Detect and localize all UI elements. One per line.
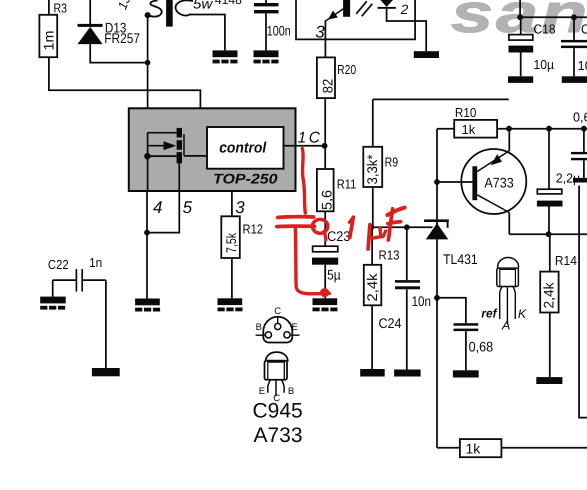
wire TL431 vertical [436, 129, 438, 448]
bar terminal (0,68) [453, 370, 479, 377]
svg-text:B: B [256, 322, 262, 333]
node C24 top junction [404, 224, 410, 230]
ground (C22) [40, 297, 65, 310]
resistor R12 [221, 191, 263, 298]
wire R9 top rail [373, 98, 509, 100]
svg-text:1n: 1n [89, 255, 102, 270]
optocoupler LED [378, 0, 427, 51]
svg-text:TOP-250: TOP-250 [213, 170, 278, 186]
ground (transformer) [213, 50, 238, 63]
svg-text:10µ: 10µ [578, 58, 587, 73]
svg-text:C: C [309, 129, 321, 146]
shunt regulator TL431 [424, 219, 478, 267]
wire emitter rail [509, 233, 587, 235]
svg-text:3: 3 [235, 198, 245, 217]
optocoupler light arrows [356, 1, 372, 16]
svg-text:R11: R11 [337, 176, 357, 191]
svg-text:ref: ref [481, 306, 498, 320]
node A733 base junction [434, 179, 440, 185]
bar terminal (R14) [536, 377, 562, 384]
resistor R14 [540, 234, 577, 377]
svg-text:E: E [259, 386, 265, 397]
capacitor C18 [508, 17, 556, 83]
ground (R12) [218, 298, 243, 311]
svg-text:2,4k: 2,4k [540, 282, 556, 309]
optocoupler phototransistor [315, 0, 350, 57]
svg-text:5,6: 5,6 [318, 190, 334, 210]
svg-text:C945: C945 [253, 400, 303, 423]
svg-text:1: 1 [298, 129, 307, 146]
svg-text:R9: R9 [385, 155, 399, 170]
node R9/R13 ref junction [368, 224, 374, 230]
svg-text:A733: A733 [484, 174, 513, 190]
svg-text:A: A [501, 318, 510, 332]
bar terminal (opto) [414, 51, 439, 58]
svg-text:3: 3 [315, 23, 325, 42]
svg-text:1m: 1m [40, 31, 56, 51]
red annotation hand-drawn 0,1µF capacitor [277, 149, 405, 298]
wire pin5 joins pin4 [147, 191, 179, 233]
wire control to pin 1 C [284, 145, 325, 147]
resistor R3 [39, 0, 200, 108]
ground (pin4) [135, 299, 160, 312]
wire ref node [371, 226, 432, 228]
svg-text:K: K [518, 307, 527, 321]
transformer secondary winding [175, 0, 241, 50]
MOSFET internal [144, 128, 207, 191]
transistor A733 [437, 129, 526, 235]
transformer primary winding [115, 0, 161, 17]
svg-text:TL431: TL431 [443, 251, 478, 267]
capacitor C22 1n [48, 255, 106, 368]
bar terminal (R13) [360, 369, 385, 377]
capacitor 0,68 bottom [437, 298, 493, 371]
capacitor 2,2µ [537, 129, 581, 235]
resistor R13 [364, 227, 400, 369]
resistor R11 [317, 146, 356, 246]
svg-text:C23: C23 [327, 228, 350, 244]
svg-text:1k: 1k [462, 122, 476, 137]
capacitor right 10µ [561, 17, 587, 83]
svg-text:C24: C24 [379, 315, 402, 331]
bar terminal (C24) [394, 370, 421, 377]
svg-text:R13: R13 [379, 247, 400, 262]
svg-text:C: C [581, 22, 587, 37]
wire drain vertical [147, 15, 149, 133]
diode D13 FR257 [78, 0, 148, 63]
TO-92 front view C945 [259, 352, 295, 404]
svg-text:5µ: 5µ [327, 266, 341, 282]
IC U1 TOP-250 body [129, 108, 296, 191]
svg-text:1k: 1k [466, 441, 482, 457]
wire pin4 to ground [146, 191, 148, 299]
transformer core [166, 0, 173, 27]
ground (100n) [254, 50, 279, 63]
svg-text:82: 82 [319, 79, 335, 94]
svg-text:R3: R3 [54, 1, 68, 16]
resistor 1k bottom [437, 439, 587, 457]
svg-text:5w: 5w [193, 0, 213, 11]
optocoupler U-box [296, 0, 415, 39]
wire top-right rail [517, 0, 587, 20]
svg-text:C: C [274, 306, 281, 317]
svg-text:R20: R20 [337, 62, 356, 77]
svg-text:0,68: 0,68 [573, 109, 587, 124]
node transformer-drain junction [145, 12, 151, 18]
capacitor 0,68 right [571, 109, 587, 182]
svg-text:10µ: 10µ [534, 57, 555, 72]
svg-text:0,68: 0,68 [469, 339, 494, 355]
svg-text:A733: A733 [254, 424, 303, 447]
node TL431 anode junction [434, 295, 440, 301]
TO-92 package TL431 [481, 258, 527, 333]
capacitor C24 10n [379, 227, 432, 369]
resistor R20 [317, 57, 356, 145]
capacitor 100n [254, 0, 291, 50]
control sub-box [207, 127, 284, 169]
svg-text:2,4k: 2,4k [364, 272, 380, 301]
svg-text:C22: C22 [48, 257, 69, 272]
resistor R9 [363, 99, 398, 227]
node pin4/5 [144, 230, 150, 236]
svg-text:C18: C18 [534, 21, 556, 36]
svg-text:4148: 4148 [215, 0, 242, 7]
resistor R10 [437, 105, 587, 138]
wire right edge loop [579, 186, 587, 418]
svg-text:control: control [219, 140, 267, 157]
svg-text:7,5k: 7,5k [223, 232, 239, 253]
bar terminal (C22 right) [92, 368, 120, 376]
svg-text:R14: R14 [555, 253, 577, 268]
svg-text:4: 4 [153, 198, 162, 217]
svg-text:100n: 100n [267, 23, 291, 39]
svg-text:R12: R12 [243, 222, 264, 237]
svg-text:E: E [292, 322, 298, 333]
svg-text:3,3k*: 3,3k* [364, 154, 380, 185]
node R14 top junction [546, 231, 552, 237]
svg-text:5: 5 [183, 198, 193, 217]
svg-text:B: B [288, 386, 294, 397]
node drain junction [145, 60, 151, 66]
svg-text:2: 2 [400, 2, 409, 17]
node 1C [322, 143, 328, 149]
TO-92 bottom view [256, 306, 300, 343]
capacitor C23 5µ [312, 228, 351, 298]
svg-text:R10: R10 [455, 105, 477, 120]
svg-text:FR257: FR257 [104, 30, 140, 46]
ground (C23) [313, 298, 338, 311]
svg-text:10n: 10n [412, 293, 431, 309]
